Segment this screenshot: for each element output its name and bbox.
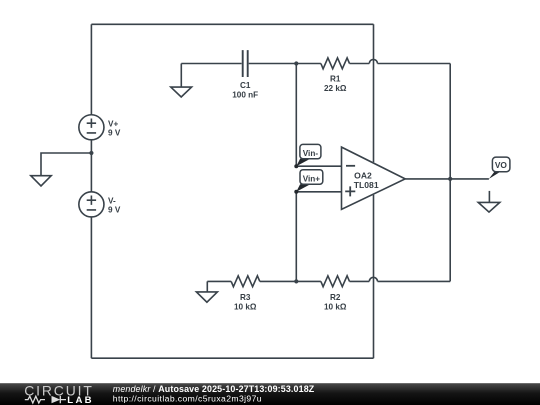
- node junction dot between sources: [89, 151, 93, 155]
- svg-text:Vin-: Vin-: [303, 149, 319, 158]
- svg-text:100 nF: 100 nF: [232, 91, 258, 100]
- svg-text:10 kΩ: 10 kΩ: [234, 303, 257, 312]
- svg-text:V+: V+: [108, 119, 118, 128]
- wire top rail V+: [91, 23, 373, 25]
- wire R3 left lead: [207, 280, 231, 282]
- wire right feedback vertical: [449, 64, 451, 282]
- wire R1 right lead: [350, 63, 370, 65]
- svg-text:R1: R1: [330, 74, 341, 83]
- wire hop over supply at R2 wire: [369, 277, 377, 281]
- wire C1 ground stem: [180, 64, 182, 88]
- wire op-amp negative supply vertical: [373, 195, 375, 358]
- wire noninverting input: [296, 191, 341, 193]
- svg-text:mendelkr / Autosave 2025-10-27: mendelkr / Autosave 2025-10-27T13:09:53.…: [113, 384, 315, 394]
- svg-text:R2: R2: [330, 293, 341, 302]
- wire noninverting input down to bottom node: [295, 192, 297, 282]
- svg-text:V-: V-: [108, 196, 116, 205]
- svg-text:22 kΩ: 22 kΩ: [324, 84, 347, 93]
- resistor R2 body: [321, 276, 350, 287]
- node flag VO: [489, 157, 510, 179]
- node bottom junction dot: [294, 279, 298, 283]
- logo resistor glyph: [25, 396, 45, 403]
- op-amp inverting marker: [346, 165, 355, 167]
- svg-text:VO: VO: [495, 160, 508, 170]
- wire node A down to inverting input: [295, 64, 297, 167]
- wire R2 to right feedback rail bottom: [378, 280, 451, 282]
- ground R3: [196, 292, 217, 302]
- node output junction dot: [448, 177, 452, 181]
- wire hop over supply at R1 wire: [369, 59, 377, 63]
- wire R2 right lead: [350, 280, 370, 282]
- wire left vertical to V+ source: [90, 24, 92, 115]
- wire V- down to bottom rail: [90, 217, 92, 358]
- resistor R3 body: [231, 276, 260, 287]
- capacitor C1 plates: [243, 50, 248, 77]
- svg-text:R3: R3: [240, 293, 251, 302]
- svg-text:Vin+: Vin+: [303, 174, 321, 183]
- wire bottom rail V-: [91, 357, 373, 359]
- node A junction dot: [294, 61, 298, 65]
- wire R3 ground stem: [206, 281, 208, 292]
- wire V+ to V- between sources: [90, 140, 92, 192]
- ground VO: [478, 202, 500, 212]
- svg-text:http://circuitlab.com/c5ruxa2m: http://circuitlab.com/c5ruxa2m3j97u: [113, 394, 262, 404]
- svg-text:9 V: 9 V: [108, 129, 121, 138]
- op-amp noninverting marker: [345, 186, 355, 196]
- ground left of sources: [31, 176, 51, 186]
- wire inverting input: [296, 165, 341, 167]
- node flag Vin+: [294, 170, 323, 194]
- wire op-amp output: [405, 178, 489, 180]
- logo diode glyph: [52, 396, 61, 403]
- wire C1 left lead: [181, 63, 241, 65]
- wire R1 to right feedback rail: [378, 63, 451, 65]
- svg-text:C1: C1: [240, 81, 251, 90]
- node flag Vin-: [294, 144, 321, 168]
- ground C1: [171, 87, 192, 97]
- wire VO ground stem: [488, 191, 490, 203]
- voltage source V+: [79, 115, 104, 140]
- svg-text:9 V: 9 V: [108, 206, 121, 215]
- svg-text:OA2: OA2: [354, 171, 372, 181]
- svg-text:10 kΩ: 10 kΩ: [324, 303, 347, 312]
- wire C1 right lead to node A: [249, 63, 321, 65]
- resistor R1 body: [321, 58, 350, 69]
- svg-text:TL081: TL081: [354, 180, 379, 190]
- wire junction to left ground: [41, 153, 91, 176]
- wire op-amp positive supply vertical: [373, 24, 375, 162]
- op-amp OA2 triangle: [342, 147, 406, 209]
- footer bar: [0, 383, 540, 405]
- svg-text:LAB: LAB: [67, 395, 94, 405]
- wire R3 to R2 through bottom node: [260, 280, 321, 282]
- voltage source V-: [79, 192, 104, 217]
